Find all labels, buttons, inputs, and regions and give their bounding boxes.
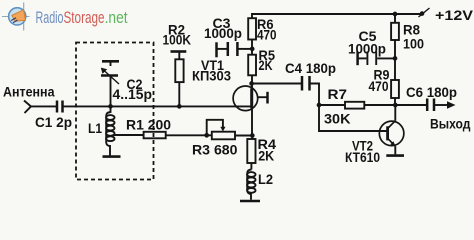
logo navy marks: [11, 18, 17, 23]
logo crosshair horizontal line: [2, 16, 30, 18]
svg-text:100: 100: [403, 36, 424, 52]
wire: R6 to C3 node: [251, 40, 253, 55]
resistor R8: [391, 14, 399, 58]
svg-text:2K: 2K: [258, 147, 274, 163]
junction: VT1 drain node: [249, 81, 254, 86]
capacitor C1: [57, 101, 63, 113]
svg-text:.net: .net: [105, 9, 128, 27]
svg-text:470: 470: [369, 78, 389, 94]
wire: R5 to VT1 drain: [251, 75, 253, 88]
svg-text:4..15p: 4..15p: [113, 86, 153, 102]
ground under L2: [240, 200, 260, 203]
svg-text:470: 470: [257, 27, 277, 43]
inductor L2: [247, 170, 255, 200]
wire: VT1 drain to C4: [252, 83, 302, 85]
capacitor C5: [358, 52, 395, 66]
svg-text:C4 180p: C4 180p: [285, 60, 336, 76]
resistor R9: [391, 58, 399, 105]
junction: C5/R8/R9 node: [393, 56, 398, 61]
dashed box around input tank: [76, 43, 154, 180]
capacitor C6: [427, 99, 455, 112]
wire: R7 node down to VT2 base: [319, 105, 388, 131]
resistor R3 (trimmer): [207, 120, 235, 140]
svg-text:Выход: Выход: [430, 116, 471, 132]
svg-text:100K: 100K: [163, 32, 192, 48]
svg-text:C1 2p: C1 2p: [35, 114, 72, 130]
wire: R1 to R3: [166, 134, 212, 136]
inductor L1: [106, 106, 114, 155]
svg-text:КП303: КП303: [192, 67, 231, 83]
wire: R3 to VT1 source node: [235, 135, 252, 137]
capacitor C2 (variable): [101, 61, 119, 106]
transistor VT1 (КП303 JFET): [233, 86, 267, 136]
capacitor C4: [302, 76, 319, 105]
junction: R8 top on rail: [393, 12, 398, 17]
svg-text:2K: 2K: [259, 57, 273, 73]
svg-text:1000p: 1000p: [348, 41, 386, 57]
svg-text:R7: R7: [328, 86, 348, 102]
ground under L1: [103, 155, 121, 158]
svg-text:Storage: Storage: [64, 9, 105, 27]
svg-text:+12V: +12V: [435, 7, 474, 23]
resistor R6: [248, 18, 256, 39]
junction: C3/R6/R5 node: [250, 47, 255, 52]
svg-text:Radio: Radio: [36, 9, 64, 27]
resistor R7: [345, 102, 364, 109]
svg-text:C6 180p: C6 180p: [406, 84, 457, 100]
wire: C1 to VT1 gate (main wire): [64, 105, 251, 107]
svg-text:L2: L2: [258, 171, 273, 187]
junction: R2 on main wire: [177, 104, 182, 109]
+12V terminal: [419, 8, 430, 17]
junction: collector node: [393, 103, 398, 108]
capacitor C3: [217, 42, 253, 57]
logo orange wedge: [12, 10, 26, 21]
junction: C4/R7/base node: [317, 103, 322, 108]
ground under VT2 emitter: [386, 154, 404, 157]
transistor VT2 (КТ610): [379, 105, 404, 154]
antenna input arrow: [24, 101, 31, 114]
junction: R3 wiper node: [204, 133, 209, 138]
svg-text:1000p: 1000p: [204, 25, 242, 41]
svg-text:КТ610: КТ610: [345, 149, 380, 165]
svg-text:R1 200: R1 200: [126, 117, 171, 133]
junction: C2/L1 on main wire: [108, 104, 113, 109]
logo circle: [9, 8, 26, 25]
svg-text:30K: 30K: [324, 111, 351, 127]
resistor R2: [171, 52, 187, 107]
top rail wire to +12V: [252, 14, 421, 18]
svg-text:R3 680: R3 680: [192, 142, 238, 158]
resistor R1: [144, 132, 166, 139]
resistor R4: [247, 136, 255, 170]
wire: L1 tap to R1: [113, 134, 144, 136]
wire: antenna to C1: [31, 105, 56, 107]
resistor R5: [248, 55, 256, 76]
wire: C4 node to R7: [319, 104, 345, 106]
wire: R7 to collector node and C6: [364, 104, 426, 106]
svg-text:Антенна: Антенна: [3, 84, 55, 100]
junction: VT1 source / R4 node: [250, 133, 255, 138]
svg-text:L1: L1: [88, 120, 102, 136]
logo crosshair vertical line: [23, 3, 25, 31]
